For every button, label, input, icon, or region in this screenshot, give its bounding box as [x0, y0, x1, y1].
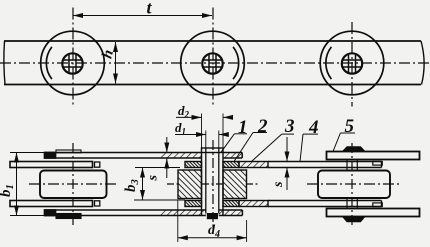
svg-text:s: s	[146, 175, 161, 182]
outer plate top, right link	[327, 152, 420, 160]
d1 extension lines	[206, 131, 219, 149]
pin P1 vertical centerline (top view)	[72, 8, 74, 107]
pin P2 upper head	[202, 148, 224, 153]
roller R2 section left block	[178, 170, 202, 199]
horizontal centerline of plan view, section segment right	[246, 183, 258, 185]
bushing B2 sides	[202, 153, 224, 216]
b3 extension lines	[134, 168, 185, 201]
horizontal centerline of plan view, section segment left	[167, 183, 179, 185]
outer plate bottom sectioned right of pin P2	[219, 210, 243, 216]
svg-text:d1: d1	[175, 120, 186, 137]
callout leader 2	[253, 132, 267, 134]
svg-text:d2: d2	[178, 103, 190, 120]
roller R3 outer circle	[320, 31, 384, 95]
pin P3 centerline (plan)	[351, 143, 353, 226]
pin P2 end circle with knurl grid	[202, 53, 222, 73]
roller R3 plan (rounded rect)	[318, 171, 390, 199]
b3 dimension line	[142, 168, 144, 201]
svg-text:h: h	[99, 48, 117, 60]
svg-text:5: 5	[345, 116, 355, 137]
roller R1 plan (rounded rect)	[40, 171, 107, 199]
inner plate top sectioned, left of pin P2 (dense)	[185, 162, 202, 168]
inner plate bottom sectioned right of pin P2	[223, 201, 268, 207]
callout leader 1	[234, 133, 247, 135]
pin P3 body side lines upper	[347, 160, 357, 171]
svg-text:b1: b1	[0, 184, 16, 197]
callout leader 5	[340, 132, 355, 134]
pin P2 body	[206, 149, 219, 214]
plate left end edge	[4, 41, 5, 85]
dimension h line with arrows	[115, 42, 117, 84]
b1 extension lines	[10, 153, 57, 216]
svg-text:s: s	[271, 181, 286, 188]
d4 dimension line	[178, 237, 247, 239]
d2 dimension line with outside arrows	[176, 116, 231, 118]
inner plate top, left link (plain)	[10, 162, 100, 168]
roller R2 section right block	[223, 170, 247, 199]
d2 extension lines	[202, 114, 224, 149]
svg-text:4: 4	[308, 117, 319, 138]
d4 extension lines	[178, 200, 247, 242]
s left dimension arrows	[166, 137, 168, 178]
svg-text:2: 2	[257, 116, 268, 137]
pin P3 body side lines lower	[347, 198, 357, 209]
pin P2 lower riveted end	[207, 214, 217, 219]
pin P1 lower head	[56, 214, 81, 219]
horizontal centerline of plan view, roller3 segment	[307, 183, 401, 185]
svg-text:1: 1	[238, 117, 248, 138]
pin P3 upper head (trapezoid)	[343, 147, 366, 152]
svg-text:3: 3	[284, 116, 295, 137]
outer plate top, left link	[45, 153, 202, 159]
horizontal centerline of plan view, roller1 segment	[29, 183, 118, 185]
outer plate top sectioned right of pin P2	[223, 153, 242, 159]
pin P3 end circle with knurl grid	[342, 53, 362, 73]
outer plate bottom, left link	[45, 210, 206, 216]
inner plate bottom, left link (plain)	[10, 201, 100, 207]
b1 dimension line	[16, 153, 18, 216]
inner plate top, middle link plain part to right end	[268, 162, 382, 168]
plate top edge	[4, 40, 421, 42]
pin P3 vertical centerline (top view)	[351, 22, 353, 107]
roller R1 outer circle	[41, 31, 105, 95]
pin P3 lower head (trapezoid)	[343, 217, 366, 222]
pin P1 upper head	[56, 150, 81, 153]
outer plate bottom, right link	[327, 209, 420, 217]
callout leader 3	[282, 133, 294, 135]
d1 dimension line with outside arrows	[175, 134, 224, 136]
plate bottom edge	[4, 84, 421, 86]
inner plate bottom, middle link plain part	[268, 201, 382, 207]
dimension t line with arrows	[73, 15, 212, 17]
svg-text:b3: b3	[123, 179, 141, 192]
pin P1 end circle with knurl grid	[62, 53, 82, 73]
inner plate bottom sectioned left of pin P2 (dense)	[185, 201, 202, 207]
roller R3 inner arc	[326, 47, 332, 79]
inner plate top sectioned, right of pin P2 (dense then hatch to break)	[223, 162, 268, 168]
horizontal centerline of plan view, across pin P2	[201, 183, 224, 185]
svg-text:t: t	[147, 0, 153, 18]
pin P1 centerline (plan)	[72, 143, 74, 226]
svg-text:d4: d4	[208, 223, 220, 240]
roller R2 outer circle	[181, 31, 245, 95]
s right dimension arrows	[286, 137, 288, 190]
pin P2 vertical centerline (top view)	[212, 8, 214, 107]
roller R1 inner arc	[46, 47, 52, 79]
plate right break line	[421, 41, 424, 85]
roller R2 inner arc	[233, 47, 239, 79]
callout leader 4	[303, 133, 318, 135]
horizontal centerline of side view	[0, 62, 430, 64]
pin P2 centerline (plan)	[212, 140, 214, 227]
